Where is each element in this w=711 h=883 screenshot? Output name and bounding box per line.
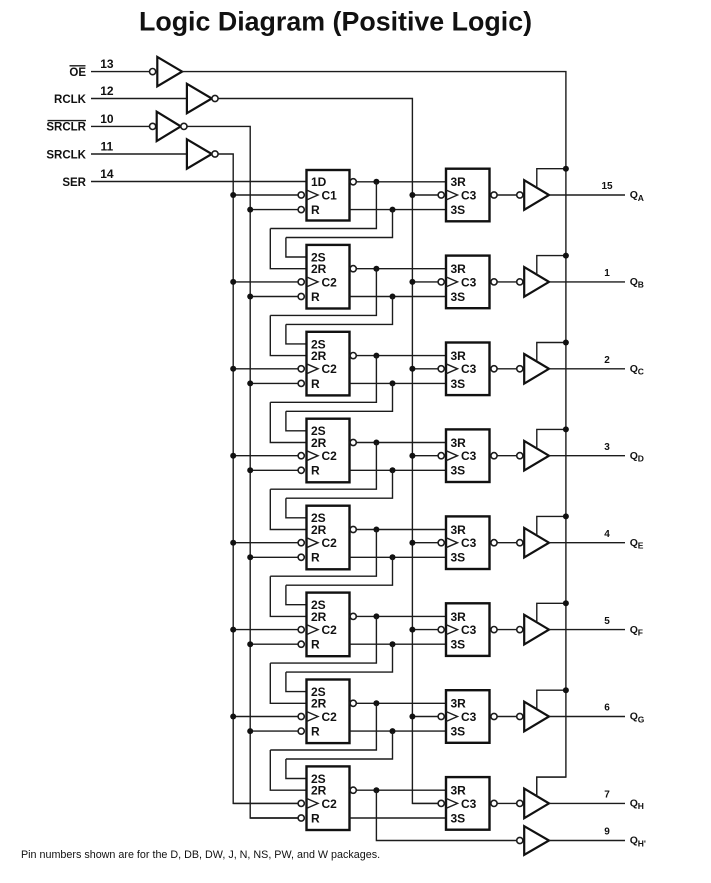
wire FF1 Qbar to 3R xyxy=(356,181,446,183)
junction node FF3 Qbar xyxy=(373,353,379,359)
svg-text:3R: 3R xyxy=(451,262,467,276)
bubble output buffer 4 input xyxy=(517,453,523,459)
bubble output buffer 5 input xyxy=(517,540,523,546)
junction RCLK rail stage 2 xyxy=(409,279,415,285)
svg-text:SRCLR: SRCLR xyxy=(46,122,86,134)
three-state buffer Y2 triangle xyxy=(524,267,549,297)
wire FF5 Qbar to FF6 2R jog xyxy=(270,530,376,577)
wire stage 3 clock input xyxy=(233,368,298,370)
wire storage latch 6 clock input xyxy=(412,629,438,631)
pin label 2R (FF2) xyxy=(311,262,327,276)
wire stage 7 2R entry xyxy=(270,663,306,703)
junction node FF4 Qbar xyxy=(373,440,379,446)
pin label 2R (FF8) xyxy=(311,784,327,798)
junction OE rail stage 4 xyxy=(563,426,569,432)
svg-text:3S: 3S xyxy=(451,638,466,652)
svg-text:SRCLK: SRCLK xyxy=(46,149,86,161)
svg-text:1: 1 xyxy=(604,268,610,279)
three-state buffer Y8 triangle xyxy=(524,789,549,819)
bubble FF6 reset input xyxy=(298,641,304,647)
svg-text:R: R xyxy=(311,551,320,565)
junction OE rail stage 3 xyxy=(563,340,569,346)
wire stage 1 reset input xyxy=(250,209,298,211)
three-state buffer Y7 triangle xyxy=(524,702,549,732)
pin label C2 with clock wedge (FF6) xyxy=(307,623,338,637)
wire stage 1 clock input xyxy=(233,194,298,196)
pin label R (FF4) xyxy=(311,464,320,478)
output label QG xyxy=(630,711,645,725)
pin label C2 with clock wedge (FF2) xyxy=(307,275,338,289)
bubble FF4 complement output xyxy=(350,439,356,445)
svg-text:1D: 1D xyxy=(311,175,327,189)
wire stage 5 2S entry xyxy=(286,498,307,518)
shift register flip-flop FF1 box xyxy=(307,170,350,221)
pin label 2R (FF6) xyxy=(311,610,327,624)
inverter G3 (SRCLR) triangle xyxy=(157,112,181,141)
output label QE xyxy=(630,537,644,551)
pin label C2 with clock wedge (FF5) xyxy=(307,536,338,550)
bubble FF7 reset input xyxy=(298,728,304,734)
svg-text:3S: 3S xyxy=(451,811,466,825)
wire FF8 Q to 3S xyxy=(350,817,447,819)
svg-text:3S: 3S xyxy=(451,290,466,304)
pin label 3S (L6) xyxy=(451,638,466,652)
three-state buffer Y6 triangle xyxy=(524,615,549,645)
svg-text:3R: 3R xyxy=(451,175,467,189)
wire stage 6 reset input xyxy=(250,643,298,645)
three-state buffer Y4 triangle xyxy=(524,441,549,471)
wire stage 4 clock input xyxy=(233,455,298,457)
pin label 3S (L3) xyxy=(451,377,466,391)
bubble FF5 clock input xyxy=(298,540,304,546)
shift register flip-flop FF5 box xyxy=(307,506,350,570)
svg-text:R: R xyxy=(311,811,320,825)
svg-text:C2: C2 xyxy=(322,362,338,376)
wire L5 output to buffer xyxy=(497,542,517,544)
wire output QC xyxy=(549,368,625,370)
wire buffer 5 enable xyxy=(537,516,566,535)
svg-text:6: 6 xyxy=(604,703,610,714)
pin 9 xyxy=(604,827,610,838)
wire FF3 Q to 3S xyxy=(350,382,447,384)
bubble L8 output xyxy=(491,800,497,806)
output label QD xyxy=(630,450,644,464)
bubble L1 clock input xyxy=(438,192,444,198)
input label SRCLR (active low) xyxy=(46,121,86,134)
svg-text:H': H' xyxy=(638,838,646,848)
svg-text:C3: C3 xyxy=(461,362,477,376)
svg-text:C2: C2 xyxy=(322,536,338,550)
svg-text:E: E xyxy=(638,541,644,551)
input label OE (active low) xyxy=(69,66,86,79)
wire FF2 Q to FF3 2S jog xyxy=(286,297,393,325)
three-state buffer Y1 triangle xyxy=(524,180,549,210)
three-state buffer Y5 triangle xyxy=(524,528,549,558)
storage latch L2 box xyxy=(446,256,490,309)
wire FF6 Qbar to 3R xyxy=(356,615,446,617)
pin 7 xyxy=(604,790,610,801)
junction SRCLR rail stage 6 xyxy=(247,641,253,647)
bubble L6 output xyxy=(491,627,497,633)
wire storage latch 1 clock input xyxy=(412,194,438,196)
bubble L5 clock input xyxy=(438,540,444,546)
pin label R (FF1) xyxy=(311,203,320,217)
wire RCLK input xyxy=(91,98,187,100)
bubble L7 output xyxy=(491,713,497,719)
wire stage 2 reset input xyxy=(250,296,298,298)
wire stage 2 clock input xyxy=(233,281,298,283)
title text xyxy=(139,7,532,37)
pin label 2S (FF2) xyxy=(311,250,326,264)
bubble L2 clock input xyxy=(438,279,444,285)
pin label 2S (FF4) xyxy=(311,424,326,438)
pin 4 xyxy=(604,529,610,540)
junction SRCLR rail stage 1 xyxy=(247,207,253,213)
wire FF6 Q to FF7 2S jog xyxy=(286,644,393,672)
bubble FF3 reset input xyxy=(298,380,304,386)
wire SRCLR net to R rail xyxy=(187,126,298,818)
wire output QH' xyxy=(549,840,625,842)
wire stage 6 2R entry xyxy=(270,576,306,616)
svg-text:13: 13 xyxy=(100,57,114,71)
bubble FF2 complement output xyxy=(350,266,356,272)
bubble FF5 complement output xyxy=(350,526,356,532)
wire storage latch 3 clock input xyxy=(412,368,438,370)
pin label 3R (L2) xyxy=(451,262,467,276)
junction OE rail stage 6 xyxy=(563,600,569,606)
pin label 2S (FF8) xyxy=(311,772,326,786)
inverter SRCLK output bubble xyxy=(212,151,218,157)
inverter SRCLR input bubble xyxy=(150,123,156,129)
wire output QB xyxy=(549,281,625,283)
wire FF1 Q to 3S xyxy=(350,209,447,211)
svg-text:OE: OE xyxy=(69,67,86,79)
pin label C2 with clock wedge (FF7) xyxy=(307,710,338,724)
wire stage 7 2S entry xyxy=(286,672,307,692)
pin label 3S (L2) xyxy=(451,290,466,304)
bubble L5 output xyxy=(491,540,497,546)
svg-text:C2: C2 xyxy=(322,797,338,811)
bubble FF1 complement output xyxy=(350,179,356,185)
bubble L3 clock input xyxy=(438,366,444,372)
svg-text:2R: 2R xyxy=(311,436,327,450)
pin label 2S (FF3) xyxy=(311,337,326,351)
wire L7 output to buffer xyxy=(497,716,517,718)
bubble L8 clock input xyxy=(438,800,444,806)
junction OE rail stage 2 xyxy=(563,253,569,259)
svg-text:C3: C3 xyxy=(461,275,477,289)
wire FF8 Qbar to 3R xyxy=(356,789,446,791)
bubble L4 output xyxy=(491,453,497,459)
shift register flip-flop FF6 box xyxy=(307,593,350,657)
junction SRCLR rail stage 7 xyxy=(247,728,253,734)
svg-text:5: 5 xyxy=(604,616,610,627)
bubble L2 output xyxy=(491,279,497,285)
svg-text:3R: 3R xyxy=(451,436,467,450)
junction SRCLK rail stage 6 xyxy=(230,627,236,633)
wire L6 output to buffer xyxy=(497,629,517,631)
wire storage latch 7 clock input xyxy=(412,716,438,718)
pin 14 xyxy=(100,167,114,181)
junction node FF7 Qbar xyxy=(373,700,379,706)
svg-text:2R: 2R xyxy=(311,349,327,363)
pin 11 xyxy=(101,139,114,153)
svg-text:3S: 3S xyxy=(451,464,466,478)
svg-text:15: 15 xyxy=(601,181,613,192)
note pin numbers xyxy=(21,849,380,861)
wire buffer 8 enable xyxy=(537,777,566,796)
inverter G4 (SRCLK) triangle xyxy=(187,139,212,168)
junction SRCLR rail stage 3 xyxy=(247,380,253,386)
pin 3 xyxy=(604,442,610,453)
wire FF4 Qbar to 3R xyxy=(356,442,446,444)
wire stage 4 2R entry xyxy=(270,402,306,442)
shift register flip-flop FF2 box xyxy=(307,245,350,309)
svg-text:R: R xyxy=(311,203,320,217)
junction OE rail stage 7 xyxy=(563,687,569,693)
svg-text:B: B xyxy=(638,280,644,290)
pin label C3 with clock wedge (L4) xyxy=(446,449,477,463)
svg-text:C: C xyxy=(638,367,644,377)
bubble L3 output xyxy=(491,366,497,372)
pin label 1D xyxy=(311,175,327,189)
svg-text:7: 7 xyxy=(604,790,610,801)
pin label C3 with clock wedge (L2) xyxy=(446,275,477,289)
bubble FF8 reset input xyxy=(298,815,304,821)
junction node FF1 Q xyxy=(390,207,396,213)
svg-text:SER: SER xyxy=(62,177,86,189)
wire storage latch 8 clock input xyxy=(412,802,438,804)
pin label 3R (L8) xyxy=(451,784,467,798)
wire L4 output to buffer xyxy=(497,455,517,457)
wire FF7 Qbar to 3R xyxy=(356,702,446,704)
wire FF5 Qbar to 3R xyxy=(356,529,446,531)
junction RCLK rail stage 6 xyxy=(409,627,415,633)
junction node FF5 Q xyxy=(390,554,396,560)
pin label 2R (FF4) xyxy=(311,436,327,450)
wire FF7 Q to FF8 2S jog xyxy=(286,731,393,759)
pin 5 xyxy=(604,616,610,627)
bubble FF1 clock input xyxy=(298,192,304,198)
bubble FF8 clock input xyxy=(298,800,304,806)
svg-text:C2: C2 xyxy=(322,623,338,637)
wire stage 5 reset input xyxy=(250,556,298,558)
bubble FF7 complement output xyxy=(350,700,356,706)
pin label 3R (L6) xyxy=(451,610,467,624)
pin label C3 with clock wedge (L6) xyxy=(446,623,477,637)
svg-text:2: 2 xyxy=(604,355,610,366)
wire output QA xyxy=(549,194,625,196)
svg-text:R: R xyxy=(311,290,320,304)
pin label C3 with clock wedge (L1) xyxy=(446,188,477,202)
bubble FF3 complement output xyxy=(350,353,356,359)
svg-text:9: 9 xyxy=(604,827,610,838)
wire output QG xyxy=(549,716,625,718)
junction node FF7 Q xyxy=(390,728,396,734)
bubble FF4 clock input xyxy=(298,453,304,459)
svg-text:Pin numbers shown are for the: Pin numbers shown are for the D, DB, DW,… xyxy=(21,849,380,861)
wire storage latch 2 clock input xyxy=(412,281,438,283)
svg-text:4: 4 xyxy=(604,529,610,540)
junction SRCLR rail stage 5 xyxy=(247,554,253,560)
wire stage 3 2R entry xyxy=(270,315,306,355)
wire output QD xyxy=(549,455,625,457)
wire L1 output to buffer xyxy=(497,194,517,196)
pin 2 xyxy=(604,355,610,366)
pin label C3 with clock wedge (L8) xyxy=(446,797,477,811)
bubble FF1 reset input xyxy=(298,207,304,213)
pin 1 xyxy=(604,268,610,279)
svg-text:11: 11 xyxy=(101,139,114,153)
wire SER to 1D input xyxy=(91,181,307,183)
svg-text:H: H xyxy=(638,801,644,811)
wire FF5 Q to FF6 2S jog xyxy=(286,557,393,585)
wire buffer 2 enable xyxy=(537,256,566,275)
wire stage 8 reset input xyxy=(250,817,298,819)
svg-text:C3: C3 xyxy=(461,449,477,463)
svg-text:2R: 2R xyxy=(311,697,327,711)
bubble FF6 complement output xyxy=(350,613,356,619)
wire L8 output to buffer xyxy=(497,802,517,804)
bubble QH' buffer input xyxy=(517,837,523,843)
wire stage 6 clock input xyxy=(233,629,298,631)
junction node FF2 Qbar xyxy=(373,266,379,272)
wire stage 8 2R entry xyxy=(270,750,306,790)
svg-text:2R: 2R xyxy=(311,784,327,798)
pin label R (FF7) xyxy=(311,725,320,739)
svg-text:14: 14 xyxy=(100,167,114,181)
wire L3 output to buffer xyxy=(497,368,517,370)
svg-text:3R: 3R xyxy=(451,697,467,711)
wire FF4 Qbar to FF5 2R jog xyxy=(270,443,376,490)
input label SRCLK xyxy=(46,149,86,161)
pin 12 xyxy=(100,84,114,98)
pin label 2R (FF5) xyxy=(311,523,327,537)
svg-text:3S: 3S xyxy=(451,203,466,217)
junction SRCLK rail stage 2 xyxy=(230,279,236,285)
storage latch L4 box xyxy=(446,429,490,482)
junction SRCLK rail stage 3 xyxy=(230,366,236,372)
bubble FF4 reset input xyxy=(298,467,304,473)
svg-text:3S: 3S xyxy=(451,377,466,391)
three-state buffer Y3 triangle xyxy=(524,354,549,384)
wire stage 2 2R entry xyxy=(270,229,306,269)
wire output QH xyxy=(549,802,625,804)
junction OE rail stage 5 xyxy=(563,513,569,519)
output label QC xyxy=(630,363,644,377)
pin label 2S (FF6) xyxy=(311,598,326,612)
output label QA xyxy=(630,189,644,203)
wire stage 5 2R entry xyxy=(270,489,306,529)
wire stage 7 reset input xyxy=(250,730,298,732)
buffer OE input bubble xyxy=(150,69,156,75)
junction RCLK rail stage 7 xyxy=(409,714,415,720)
wire L2 output to buffer xyxy=(497,281,517,283)
wire storage latch 5 clock input xyxy=(412,542,438,544)
svg-text:A: A xyxy=(638,193,644,203)
pin label R (FF8) xyxy=(311,811,320,825)
pin label C2 with clock wedge (FF8) xyxy=(307,797,338,811)
svg-text:3: 3 xyxy=(604,442,610,453)
bubble output buffer 6 input xyxy=(517,627,523,633)
wire OE net to enable rail xyxy=(182,72,566,797)
wire buffer 4 enable xyxy=(537,429,566,448)
wire FF7 Qbar to FF8 2R jog xyxy=(270,703,376,750)
output label QH' xyxy=(630,835,646,849)
bubble L1 output xyxy=(491,192,497,198)
svg-text:C2: C2 xyxy=(322,449,338,463)
svg-text:Logic Diagram (Positive Logic): Logic Diagram (Positive Logic) xyxy=(139,7,532,37)
pin label C2 with clock wedge (FF3) xyxy=(307,362,338,376)
junction RCLK rail stage 3 xyxy=(409,366,415,372)
svg-text:R: R xyxy=(311,638,320,652)
wire FF2 Qbar to 3R xyxy=(356,268,446,270)
pin label R (FF2) xyxy=(311,290,320,304)
wire SRCLK net to C2 rail xyxy=(218,154,298,803)
shift register flip-flop FF4 box xyxy=(307,419,350,483)
bubble L7 clock input xyxy=(438,713,444,719)
pin label R (FF6) xyxy=(311,638,320,652)
wire SRCLR input xyxy=(91,125,150,127)
wire FF6 Qbar to FF7 2R jog xyxy=(270,616,376,663)
wire stage 3 2S entry xyxy=(286,324,307,344)
pin 6 xyxy=(604,703,610,714)
output label QB xyxy=(630,276,644,290)
svg-text:D: D xyxy=(638,454,644,464)
pin label 3R (L7) xyxy=(451,697,467,711)
junction node FF5 Qbar xyxy=(373,527,379,533)
pin label 3R (L4) xyxy=(451,436,467,450)
bubble L4 clock input xyxy=(438,453,444,459)
svg-text:3S: 3S xyxy=(451,725,466,739)
wire stage 4 2S entry xyxy=(286,411,307,431)
junction node FF1 Qbar xyxy=(373,179,379,185)
junction SRCLK rail stage 5 xyxy=(230,540,236,546)
storage latch L6 box xyxy=(446,603,490,656)
pin label 3S (L1) xyxy=(451,203,466,217)
svg-text:C3: C3 xyxy=(461,623,477,637)
output label QH xyxy=(630,798,644,812)
junction RCLK rail stage 5 xyxy=(409,540,415,546)
pin label 2S (FF5) xyxy=(311,511,326,525)
buffer QH' triangle xyxy=(524,826,549,855)
wire FF4 Q to 3S xyxy=(350,469,447,471)
buffer G1 (OE) triangle xyxy=(157,57,182,86)
wire buffer 1 enable xyxy=(537,169,566,188)
svg-text:3R: 3R xyxy=(451,349,467,363)
wire stage 7 clock input xyxy=(233,716,298,718)
pin label C2 with clock wedge (FF4) xyxy=(307,449,338,463)
buffer G2 (RCLK) triangle xyxy=(187,84,212,113)
junction node FF4 Q xyxy=(390,467,396,473)
bubble FF8 complement output xyxy=(350,787,356,793)
wire FF2 Qbar to FF3 2R jog xyxy=(270,269,376,316)
wire stage 8 clock input xyxy=(233,802,298,804)
bubble L6 clock input xyxy=(438,627,444,633)
bubble FF7 clock input xyxy=(298,713,304,719)
output label QF xyxy=(630,624,643,638)
wire buffer 6 enable xyxy=(537,603,566,622)
junction OE rail stage 1 xyxy=(563,166,569,172)
svg-text:G: G xyxy=(638,714,645,724)
pin 15 xyxy=(601,181,613,192)
bubble FF6 clock input xyxy=(298,627,304,633)
storage latch L3 box xyxy=(446,343,490,396)
junction SRCLK rail stage 7 xyxy=(230,714,236,720)
bubble output buffer 7 input xyxy=(517,713,523,719)
svg-text:F: F xyxy=(638,627,643,637)
wire stage 8 2S entry xyxy=(286,759,307,779)
